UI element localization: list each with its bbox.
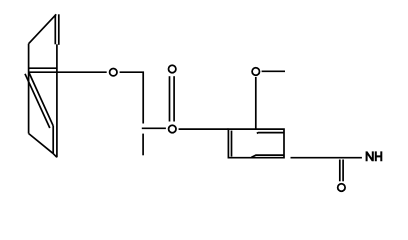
atom label amide H of NH	[376, 151, 382, 161]
benzene ring rectangle	[228, 129, 284, 158]
wire amide C=O line a	[339, 160, 341, 182]
wire right vertical P3-P8	[56, 44, 58, 157]
wire diagonal main P5-P9	[29, 73, 53, 126]
wire diagonal P1-P2	[29, 14, 57, 43]
wire left vertical P1-P6	[28, 44, 30, 134]
wire tip P7-P8	[53, 153, 57, 157]
wire double bond P2=P3 line b	[58, 14, 60, 45]
wire ring to amide NH	[291, 157, 362, 159]
wire diagonal inner P5=P9	[25, 74, 50, 128]
wire carbonyl double bond line b	[173, 76, 175, 121]
benzene inner top double line	[257, 132, 284, 135]
wire methoxy O to ring	[255, 77, 257, 129]
wire horizontal inner double bond P5=P4	[29, 67, 57, 69]
atom label amide N of NH	[367, 151, 373, 161]
atom label ether O	[110, 69, 117, 76]
wire CH to ester O	[142, 127, 166, 129]
atom label methoxy O	[252, 68, 259, 75]
wire ether O to CH corner	[120, 72, 144, 123]
wire amide C=O line b	[342, 160, 344, 182]
atom label ester O	[169, 125, 176, 132]
wire horizontal main P5-P4 to ether O	[29, 71, 107, 73]
benzene inner bottom double line	[251, 155, 284, 157]
wire double bond P2=P3 line a	[54, 15, 56, 45]
wire vertical P9-P7	[52, 126, 54, 153]
wire ester O to ring	[179, 128, 229, 130]
wire diagonal P6-P7	[29, 134, 53, 154]
atom label carbonyl O	[169, 65, 176, 72]
wire methoxy methyl	[262, 70, 285, 72]
benzene inner left double line	[231, 131, 233, 157]
atom label amide O	[338, 184, 345, 191]
wire carbonyl double bond line a	[169, 76, 171, 121]
wire methyl stub below CH	[142, 134, 144, 156]
